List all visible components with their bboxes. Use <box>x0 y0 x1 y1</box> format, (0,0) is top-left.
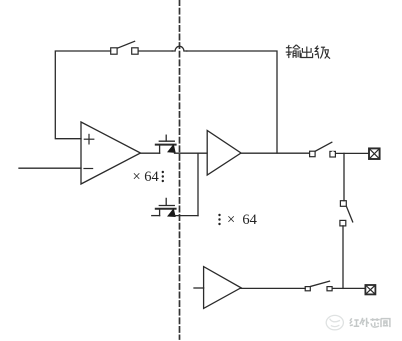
wire column to bottom row <box>342 226 344 289</box>
op-amp + label <box>84 134 94 144</box>
transistor Q1 gate plate <box>159 140 174 142</box>
transistor Q2 gate plate <box>159 205 174 207</box>
transistor Q1 gate lead <box>165 135 167 141</box>
buffer A1 <box>207 131 241 176</box>
transistor Q2 drain arrow <box>168 209 175 217</box>
watermark text hong 红 <box>350 318 360 326</box>
switch S2 lever <box>315 142 332 151</box>
wire hop to corner <box>187 51 277 153</box>
watermark logo <box>326 315 343 329</box>
switch S1 left contact <box>111 48 117 54</box>
wire hop over dashed line <box>172 46 187 51</box>
svg-text:× 64: × 64 <box>133 169 160 185</box>
watermark text xin 芯 <box>370 318 379 327</box>
wire Q1 to buffer <box>175 152 208 154</box>
dashed partition line <box>179 0 181 339</box>
transistor Q2 gate lead <box>165 198 167 205</box>
svg-text:× 64: × 64 <box>227 212 258 228</box>
buffer A2 input stub <box>194 287 204 289</box>
wire buffer A1 output <box>241 152 309 154</box>
label 输出级 output stage <box>286 45 330 59</box>
wire feedback left branch <box>55 51 110 139</box>
switch S1 right contact <box>132 48 138 54</box>
watermark text wen 闻 <box>381 318 390 327</box>
transistor Q2 source stub <box>152 215 160 217</box>
wire S4 to pad <box>332 287 365 289</box>
switch S4 right contact <box>327 287 332 291</box>
label dots right <box>218 214 220 225</box>
label dots left <box>162 171 164 182</box>
wire op-amp output <box>141 152 160 154</box>
wire input to op-amp inverting input <box>19 167 81 169</box>
wire S2 to pad <box>336 152 369 154</box>
op-amp - label <box>84 168 93 170</box>
wire top to hop <box>138 50 172 52</box>
char shu 输 <box>286 45 300 58</box>
wire buffer A2 output <box>241 287 305 289</box>
switch S4 left contact <box>305 287 310 291</box>
char ji 级 <box>315 46 330 59</box>
switch S3 top contact <box>340 201 346 207</box>
switch S2 right contact <box>330 151 336 157</box>
switch S4 lever <box>311 281 330 286</box>
pad X1 box <box>369 148 380 159</box>
op-amp U1 <box>81 122 141 184</box>
wire junction drop to Q2 <box>197 153 199 215</box>
wire Q2 drain to junction <box>175 215 199 217</box>
buffer A2 <box>204 267 241 309</box>
switch S3 bottom contact <box>340 220 346 226</box>
switch S1 lever <box>117 41 134 48</box>
wire column drop <box>343 153 345 200</box>
transistor Q1 channel <box>156 144 176 146</box>
watermark text wai 外 <box>360 318 369 327</box>
pad X2 cross <box>366 285 375 294</box>
char chu 出 <box>301 47 313 58</box>
switch S3 lever <box>346 206 352 222</box>
transistor Q1 drain arrow <box>168 145 175 153</box>
transistor Q2 source leg <box>159 209 161 216</box>
transistor Q1 source leg <box>159 145 161 154</box>
pad X2 box <box>365 285 375 294</box>
transistor Q2 channel <box>156 208 176 210</box>
switch S2 left contact <box>310 151 316 157</box>
pad X1 cross <box>369 149 379 159</box>
